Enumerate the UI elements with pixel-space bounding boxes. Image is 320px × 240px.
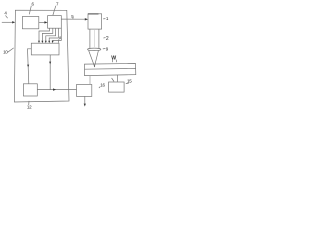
svg-text:15: 15	[127, 79, 132, 84]
svg-text:W: W	[111, 55, 116, 61]
svg-text:2: 2	[106, 36, 109, 42]
